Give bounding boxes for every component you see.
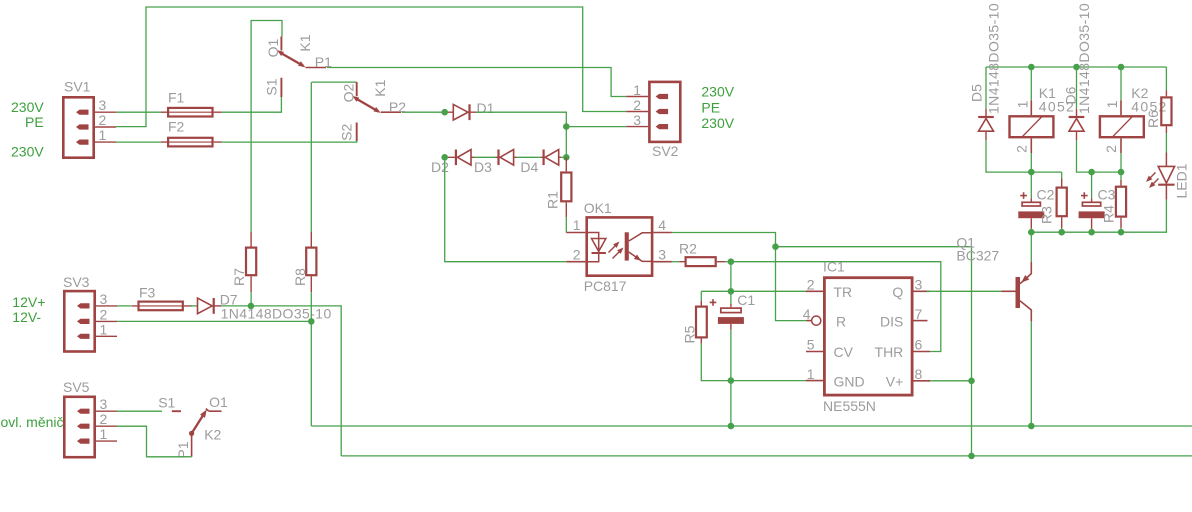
svg-text:R6: R6 [1145,110,1161,128]
SV5 pin 1 number [100,426,108,442]
svg-text:K2: K2 [204,427,221,443]
wire K1 node down to C2 [1030,172,1032,198]
svg-text:LED1: LED1 [1173,163,1189,198]
wire contact O2 down to resistor R8 [311,82,356,232]
svg-text:K1: K1 [297,34,313,51]
transistor Q1 emitter [1020,301,1031,322]
resistor R5 label [682,325,698,343]
capacitor C2 [1018,192,1044,229]
wire SV2 node down to D4 node [565,127,567,158]
SV3 pin 2 number [100,306,108,322]
svg-text:F1: F1 [168,90,185,106]
diode D4 [541,150,561,166]
relay K2 name label [1131,85,1148,101]
junction R8 bottom node [308,318,315,325]
diode D5 value label [986,3,1002,114]
IC1 pin label THR [875,344,904,360]
svg-text:1: 1 [100,426,108,442]
net label PE at SV2 pin 2 [701,100,720,116]
diode D7 value label [221,306,332,322]
wire SV3 pin 3 to fuse F3 [117,305,131,307]
switch K2 label K2 [204,427,221,443]
junction GND node at C1 [728,377,735,384]
wire D4 to R1 node [561,156,566,158]
SV2 pin 3 number [633,112,641,128]
IC1 pin 6 stub [914,351,931,353]
wire D5 top lead [985,67,987,109]
relay K1 coil pin 1 lead [1030,100,1032,115]
svg-text:4: 4 [803,306,811,322]
IC1 pin 2 stub [806,290,823,292]
svg-text:P1: P1 [315,54,332,70]
svg-text:F3: F3 [139,285,156,301]
svg-text:S1: S1 [263,78,279,95]
svg-text:1: 1 [807,366,815,382]
SV5 pin 2 lead [96,425,117,427]
IC1 pin label TR [834,284,853,300]
wire R3 top lead [1061,172,1063,178]
capacitor C1 label [737,292,755,308]
switch K1b label P2 [389,99,406,115]
wire IC1 V+ pin to 12V column [930,380,972,382]
SV3 pin 1 stub [77,334,90,339]
junction rail A at C1 column [728,423,735,430]
net label 12V+ at SV3 pin 3 [12,294,45,310]
net label PE at SV1 pin 2 [25,114,44,130]
net label 230V at SV1 pin 1 [11,144,44,160]
svg-text:2: 2 [100,306,108,322]
svg-text:5: 5 [807,337,815,353]
diode D5 [978,109,994,141]
junction rail B at V+ column [968,453,975,460]
svg-text:230V: 230V [701,115,734,131]
SV1 pin 3 number [99,97,107,113]
svg-text:R2: R2 [679,240,697,256]
svg-text:2: 2 [633,97,641,113]
svg-text:3: 3 [100,396,108,412]
SV5 pin 1 stub [77,439,90,444]
svg-text:P2: P2 [389,99,406,115]
svg-text:1: 1 [1104,100,1120,108]
IC1 pin 3 number [915,277,923,293]
SV5 pin 3 lead [96,410,117,412]
IC1 pin 1 number [807,366,815,382]
wire SV1 pin 3 to fuse F1 [116,111,161,113]
junction C3 node [1088,169,1095,176]
svg-text:R4: R4 [1100,205,1116,223]
svg-text:1: 1 [573,217,581,233]
fuse F2 [161,138,222,147]
IC1 pin label CV [834,344,854,360]
IC1 pin 8 number [915,366,923,382]
svg-text:NE555N: NE555N [823,398,876,414]
switch K2 contact O1 [206,409,222,412]
wire OK1 pin 3 to R2 [672,261,679,263]
svg-text:V+: V+ [886,373,904,389]
junction D2 anode node [441,154,448,161]
wire OK1 pin 4 to reset node [672,233,776,247]
wire C3 bottom [1091,229,1093,232]
relay K2 coil box [1100,116,1144,137]
IC1 pin 4 number [803,306,811,322]
svg-text:1: 1 [1014,100,1030,108]
svg-text:R7: R7 [231,268,247,286]
wire contact P1 to SV2 pin 1 [327,68,626,97]
switch K2 contact S1 [172,410,181,412]
svg-text:3: 3 [633,112,641,128]
resistor R2 [679,257,725,266]
diode D7 [198,298,222,314]
svg-text:F2: F2 [168,119,185,135]
wire R2 node to THR bracket [731,262,941,352]
svg-text:1N4148DO35-10: 1N4148DO35-10 [986,3,1002,114]
wire K2 coil pin 1 [1120,67,1122,100]
svg-text:12V+: 12V+ [12,294,45,310]
svg-text:O2: O2 [340,83,356,102]
wire K1 coil pin 2 down [1030,153,1032,172]
svg-text:THR: THR [875,344,904,360]
svg-text:4: 4 [658,217,666,233]
svg-text:IC1: IC1 [823,259,845,275]
resistor R7 [246,232,256,292]
svg-text:230V: 230V [11,99,44,115]
IC1 pin 5 stub [806,351,823,353]
svg-text:O1: O1 [265,38,281,57]
svg-text:3: 3 [99,97,107,113]
IC1 value label NE555N [823,398,876,414]
junction V+ node [968,378,975,385]
svg-text:R1: R1 [545,191,561,209]
resistor R3 label [1039,206,1055,224]
connector SV2 [649,82,680,142]
relay K1 coil box [1010,116,1054,137]
SV1 pin 1 stub [76,140,89,145]
optocoupler OK1 pin2 stub [566,261,585,263]
transistor Q1 base bar [1016,277,1021,308]
svg-text:2: 2 [573,246,581,262]
svg-text:1: 1 [99,127,107,143]
wire SV5 pin 3 to contact S1 [117,410,162,412]
resistor R1 [561,157,571,217]
wire reset node to V+ column [776,247,972,456]
svg-text:BC327: BC327 [956,248,999,264]
switch K1b label O2 [340,83,356,102]
SV1 name label [64,79,91,95]
wire R2 to TR/THR node [725,261,731,263]
svg-text:3: 3 [658,246,666,262]
IC1 pin label DIS [880,313,903,329]
fuse F1 [161,108,222,117]
optocoupler OK1 name label [584,200,612,216]
SV5 pin 2 number [100,411,108,427]
connector SV3 [64,291,94,351]
relay K2 pin 1 number [1104,100,1120,108]
svg-text:8: 8 [915,366,923,382]
capacitor C3 label [1098,187,1116,203]
capacitor C2 label [1037,187,1055,203]
svg-text:C1: C1 [737,292,755,308]
wire R6 to LED1 [1165,133,1167,153]
svg-text:SV3: SV3 [63,274,90,290]
SV5 name label [63,379,90,395]
relay K2 value label 4052 [1131,99,1167,115]
svg-text:PC817: PC817 [584,278,627,294]
svg-text:1: 1 [633,82,641,98]
resistor R6 [1161,91,1171,134]
junction relay rail at D6 [1073,64,1080,71]
SV1 pin 3 lead [95,111,116,113]
transistor Q1 collector [1020,262,1031,284]
svg-text:2: 2 [99,112,107,128]
wire D5 anode to K1 coil node [986,140,1062,172]
junction common row at C2 [1028,229,1035,236]
svg-text:S1: S1 [158,395,175,411]
relay K1 pin 2 number [1013,145,1029,153]
SV2 name label [652,143,679,159]
svg-text:PE: PE [25,114,44,130]
svg-text:230V: 230V [701,83,734,99]
IC1 pin 2 number [807,277,815,293]
fuse F1 label [168,90,185,106]
SV3 pin 2 lead [96,320,117,322]
IC1 pin 3 stub [914,290,931,292]
svg-text:OK1: OK1 [584,200,612,216]
svg-text:12V-: 12V- [12,309,41,325]
relay K2 pin 2 number [1103,145,1119,153]
wire fuse F2 to switch contact S2 [222,141,357,142]
wire C3 top lead [1091,172,1093,198]
switch K1 label S1 [263,78,279,95]
svg-text:K1: K1 [372,79,388,96]
IC1 pin label R [836,313,846,329]
wire reset node down to IC1 pin 4 [776,247,807,321]
diode D2 label [431,159,449,175]
switch K1b arm O2-P2 [353,96,381,113]
svg-text:CV: CV [834,344,854,360]
switch K1 label P1 [315,54,332,70]
switch K2 label S1 [158,395,175,411]
diode D3 label [474,159,492,175]
svg-text:SV2: SV2 [652,143,679,159]
wire Q1 emitter down to rail A [1030,321,1032,426]
IC1 pin 1 stub [806,380,823,382]
svg-text:PE: PE [701,100,720,116]
wire C1 bottom down to rail [730,330,732,427]
SV1 pin 2 stub [76,124,89,129]
svg-text:D3: D3 [474,159,492,175]
wire D7 to 12V rail [221,306,341,456]
SV3 pin 3 lead [96,305,117,307]
switch K1 arm O1-P1 [277,50,305,67]
wire PE net: SV1 pin 2 up and across top to SV2 pin 2 [116,7,626,127]
wire R1 bottom to OK1 pin 1 [565,217,567,232]
switch K1b label K1 [372,79,388,96]
svg-text:GND: GND [834,373,865,389]
wire C1 top lead [730,291,732,303]
relay K2 coil pin 1 lead [1120,100,1122,115]
OK1 pin 3 number [658,246,666,262]
diode D6 value label [1076,3,1092,114]
svg-text:3: 3 [915,277,923,293]
wire K2 coil pin 2 down [1120,153,1122,172]
wire R2 node down to TR node [730,262,732,292]
diode D6 label [1063,86,1079,104]
wire D1 cathode to SV2 pin 3 node [477,112,627,126]
svg-text:2: 2 [807,277,815,293]
junction K1 coil node [1028,169,1035,176]
diode D4 label [520,159,538,175]
IC1 pin label GND [834,373,865,389]
switch K2 arm [189,410,207,437]
wire R5 top lead [700,291,702,300]
SV1 pin 3 stub [76,110,89,115]
optocoupler OK1 pin3 stub [653,261,672,263]
transistor Q1 value label BC327 [956,248,999,264]
switch K1 contact P1 stub [306,67,327,69]
SV5 pin 3 stub [77,409,90,414]
junction D1 anode node [441,109,448,116]
optocoupler OK1 value label PC817 [584,278,627,294]
SV2 pin 2 stub [656,109,669,114]
wire R4 top lead [1120,172,1122,180]
optocoupler OK1 pin1 stub [566,232,585,234]
wire R7 bottom lead [250,292,252,306]
wire fuse F3 to diode D7 [190,305,198,307]
capacitor C1 [710,299,744,329]
junction reset node [772,243,779,250]
SV5 pin 2 stub [77,424,90,429]
svg-text:D2: D2 [431,159,449,175]
wire Q1 collector up to relay common [1030,232,1032,262]
wire 12V rail B [341,455,1192,457]
svg-text:C3: C3 [1098,187,1116,203]
wire R4 bottom lead [1120,228,1122,232]
resistor R4 [1116,180,1126,228]
wire TR node to IC1 pin 2 and R5 top [701,290,806,292]
wire K1 coil pin 1 [1030,67,1032,100]
SV2 pin 3 stub [656,124,669,129]
IC1 pin 5 number [807,337,815,353]
junction common row at R4 [1118,229,1125,236]
optocoupler OK1 phototransistor [625,232,653,261]
optocoupler OK1 pin4 stub [653,232,672,234]
SV1 pin 1 lead [95,141,116,143]
resistor R4 label [1100,205,1116,223]
switch K1 contact O1 [280,36,282,50]
switch K1 label K1 [297,34,313,51]
IC1 pin label V+ [886,373,904,389]
wire LED1 down to relay common row [1031,200,1166,232]
resistor R7 label [231,268,247,286]
IC1 pin 7 stub [914,320,928,322]
wire SV1 pin 1 to fuse F2 [116,141,161,143]
switch K2 label O1 [209,394,228,410]
IC1 pin 4 stub with inversion bubble [807,316,821,325]
relay K1 coil pin 2 lead [1030,138,1032,153]
junction rail A at Q1 emitter [1028,423,1035,430]
junction common row at R3 [1058,229,1065,236]
wire SV5 pin 2 to contact P1 [117,426,192,457]
junction R7 bottom node [248,303,255,310]
wire D2 node down to OK1 pin 2 [445,157,567,261]
svg-text:SV1: SV1 [64,79,91,95]
svg-text:P1: P1 [175,441,191,458]
switch K2 contact P1 [191,433,193,456]
switch K1b contact O2 [356,82,358,96]
wire D2 to D3 [474,156,496,158]
SV2 pin 3 lead [626,126,648,128]
svg-text:O1: O1 [209,394,228,410]
svg-text:230V: 230V [11,144,44,160]
svg-text:R8: R8 [292,268,308,286]
IC1 pin 7 number [915,306,923,322]
SV2 pin 1 lead [626,96,648,98]
junction K2 coil node [1118,169,1125,176]
diode D1 [447,104,477,120]
svg-text:6: 6 [915,337,923,353]
svg-text:Q: Q [892,284,903,300]
diode D1 label [477,100,495,116]
wire contact P2 to diode D1 node [402,111,447,113]
svg-text:D1: D1 [477,100,495,116]
resistor R8 [306,232,316,292]
svg-text:SV5: SV5 [63,379,90,395]
SV3 pin 2 stub [77,319,90,324]
net label 230V at SV2 pin 3 [701,115,734,131]
SV5 pin 3 number [100,396,108,412]
resistor R6 label [1145,110,1161,128]
switch K1b label S2 [338,124,354,141]
SV1 pin 2 lead [95,126,116,128]
transistor Q1 base lead [1002,290,1016,292]
diode D3 [496,150,517,166]
OK1 pin 1 number [573,217,581,233]
capacitor C3 [1079,192,1105,229]
switch K1 contact S1 [280,78,282,97]
junction relay rail at K1 pin 1 [1028,64,1035,71]
connector SV5 [64,397,94,457]
svg-text:7: 7 [915,306,923,322]
svg-text:1N4148DO35-10: 1N4148DO35-10 [221,306,332,322]
relay K1 pin 1 number [1014,100,1030,108]
SV2 pin 2 number [633,97,641,113]
wire fuse F1 to switch contact S1 [222,97,282,112]
SV1 pin 1 number [99,127,107,143]
junction common row at C3 [1088,229,1095,236]
SV1 pin 2 number [99,112,107,128]
connector SV1 [63,97,93,157]
resistor R8 label [292,268,308,286]
diode D2 [446,150,474,166]
junction D4 node R1 top [563,154,570,161]
switch K1b contact S2 [356,123,358,142]
fuse F2 label [168,119,185,135]
SV5 pin 1 lead [96,440,117,442]
resistor R3 [1057,178,1067,228]
svg-text:1N4148DO35-10: 1N4148DO35-10 [1076,3,1092,114]
wire C2 bottom [1030,229,1032,232]
svg-text:ovl. měnič: ovl. měnič [1,414,64,430]
SV3 pin 3 stub [77,303,90,308]
svg-text:3: 3 [100,291,108,307]
SV2 pin 2 lead [626,111,648,113]
diode D5 label [969,84,985,102]
optocoupler OK1 box [587,217,652,275]
switch K1 label O1 [265,38,281,57]
svg-text:2: 2 [1013,145,1029,153]
junction TR node [728,288,735,295]
switch K1b contact P2 stub [381,111,401,113]
